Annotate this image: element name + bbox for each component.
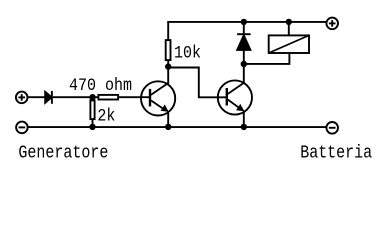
svg-text:Generatore: Generatore: [18, 143, 108, 164]
junction node relay top rail: [286, 19, 292, 25]
terminal generator negative: [16, 122, 28, 134]
wire 2k branch: [92, 97, 94, 127]
wire diode D2 branch / Q2 collector: [243, 22, 245, 35]
junction node 10k bottom / Q1 collector: [165, 63, 171, 69]
terminal battery negative: [326, 122, 338, 134]
svg-text:Batteria: Batteria: [300, 143, 372, 164]
wire Q1 collector to Q2 base: [168, 68, 227, 98]
wire relay bottom link: [244, 54, 290, 64]
wire 10k branch / Q1 collector: [167, 22, 169, 84]
wire Q2 emitter: [243, 111, 245, 128]
junction node R1/R2 base divider: [89, 94, 95, 100]
wire top rail: [167, 21, 326, 23]
junction node Q1 emitter rail: [165, 124, 171, 130]
resistor R3 10k: [166, 40, 171, 60]
terminal battery positive: [326, 18, 338, 30]
junction node D2 anode / Q2 collector: [241, 61, 247, 67]
wire generator positive rail: [28, 96, 45, 98]
diode D2 flyback: [237, 33, 251, 35]
svg-text:10k: 10k: [174, 44, 201, 63]
relay K1 coil box: [269, 35, 309, 53]
resistor R1 470 ohm: [98, 95, 118, 100]
junction node R2 bottom rail: [89, 124, 95, 130]
junction node Q2 emitter rail: [241, 124, 247, 130]
transistor Q1: [141, 81, 175, 115]
wire Q1 emitter: [167, 111, 169, 127]
svg-text:470 ohm: 470 ohm: [69, 76, 132, 95]
terminal generator positive: [16, 92, 28, 104]
resistor R2 2k: [90, 100, 94, 119]
svg-text:2k: 2k: [97, 106, 115, 125]
wire bottom rail: [28, 126, 326, 128]
transistor Q2: [218, 80, 252, 114]
junction node diode D2 top rail: [241, 19, 247, 25]
wire relay top pin: [288, 22, 290, 35]
diode D1 series: [45, 92, 51, 103]
